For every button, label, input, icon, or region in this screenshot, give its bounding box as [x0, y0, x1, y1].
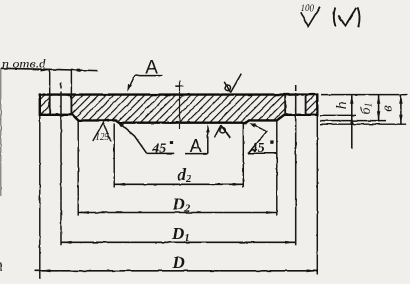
view label A top leader — [129, 76, 135, 87]
right side: rim bottom extension — [320, 114, 356, 116]
dimension h — [351, 96, 353, 149]
view label A top underline — [135, 75, 163, 77]
flange section outline — [40, 95, 318, 123]
right side: top surface extension — [321, 94, 408, 96]
bolt hole right (white opening) — [285, 96, 305, 114]
right hole centerline / D1 extension line — [295, 93, 297, 245]
chamfer label 45 left leader — [122, 125, 147, 153]
extension line D left — [39, 116, 41, 279]
svg-text:А: А — [190, 136, 202, 156]
right side: plate bottom extension — [320, 120, 386, 122]
extension line d2 right — [242, 124, 244, 188]
svg-text:h: h — [334, 102, 350, 110]
dimension line D2 — [78, 212, 277, 214]
dimension line D — [35, 270, 318, 272]
bolt hole left edges — [49, 94, 51, 115]
svg-text:D: D — [172, 253, 185, 272]
roughness check on bottom face — [215, 125, 231, 138]
roughness mark 125 under plate — [93, 123, 111, 142]
svg-text:100: 100 — [301, 4, 315, 14]
right side: face bottom extension — [320, 123, 406, 125]
right hole centerline dash — [295, 85, 297, 91]
dimension b1 — [378, 95, 380, 122]
extension line D2 right — [276, 121, 278, 216]
extension line D right — [316, 116, 318, 275]
dimension n otv d : left arrow — [41, 68, 50, 71]
chamfer label 45 right leader — [248, 125, 266, 154]
view label A top leader arrow — [127, 84, 131, 92]
roughness check on top surface — [224, 74, 241, 93]
extension line d2 left — [113, 124, 115, 188]
bolt hole left (white opening) — [50, 96, 72, 114]
dimension line D1 — [61, 241, 296, 243]
dimension n otv d : line — [1, 68, 98, 70]
dimension n otv d : extension lines — [49, 70, 51, 95]
corner mark (v) — [334, 8, 336, 27]
svg-text:в: в — [380, 105, 396, 112]
dimension b — [400, 95, 402, 125]
svg-text:125: 125 — [95, 132, 109, 143]
bolt hole right edges — [284, 94, 286, 115]
flange section hatched body — [40, 95, 318, 123]
left hole centerline / D1 extension line — [60, 92, 62, 246]
left hole centerline dash — [60, 83, 62, 89]
dimension n otv d : right arrow — [71, 69, 80, 72]
extension line D2 left — [77, 121, 79, 216]
scan artifact left edge — [0, 68, 2, 196]
svg-text:n отв.d: n отв.d — [2, 57, 46, 71]
dimension line d2 — [114, 183, 243, 185]
flange axis centerline — [179, 81, 181, 130]
